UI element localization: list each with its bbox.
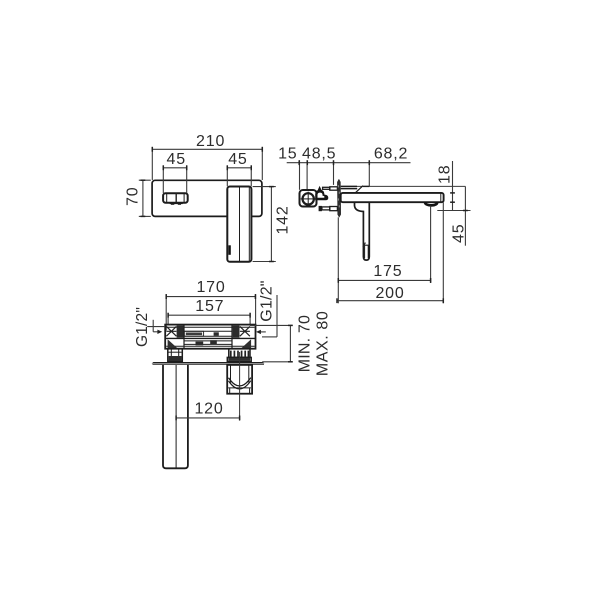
side spout aerator: [425, 202, 438, 205]
side trim sleeve lines: [341, 186, 466, 193]
dimension 142 extension lines: [253, 187, 276, 262]
front view handle outer: [163, 193, 188, 203]
dimension 70 text: [125, 187, 142, 206]
plan min max text: [297, 311, 332, 377]
svg-text:200: 200: [375, 285, 404, 302]
svg-text:45: 45: [228, 151, 247, 168]
svg-text:MIN. 70: MIN. 70: [297, 315, 314, 372]
side handle square: [300, 190, 317, 207]
side wall escutcheon strip: [337, 179, 340, 217]
dimension 70 extension lines: [139, 180, 151, 216]
plan min max dim line: [288, 325, 293, 361]
dimension 142 line: [269, 187, 274, 262]
dimension 15 text: [278, 145, 297, 162]
svg-text:45: 45: [450, 224, 467, 243]
svg-text:175: 175: [373, 263, 402, 280]
front view spout inner lines: [240, 187, 250, 261]
dimension 175 line: [338, 278, 430, 283]
dimension 210 line: [152, 147, 262, 152]
dimension 210 text: [196, 133, 225, 150]
dimension 18 text: [437, 165, 454, 184]
dimension 48,5 text: [302, 145, 336, 162]
plan dim 120 line: [176, 416, 240, 421]
front view spout aerator mark: [228, 245, 230, 255]
plan left port block: [168, 349, 183, 362]
plan body left cap: [166, 325, 184, 348]
plan dim 170 line: [166, 294, 255, 299]
dimension 142 text: [275, 205, 292, 234]
plan body FANTINI label: [184, 331, 219, 336]
svg-text:18: 18: [437, 165, 454, 184]
svg-text:120: 120: [194, 401, 223, 418]
plan min max extension line: [250, 325, 292, 361]
plan left drop pipe: [163, 365, 188, 468]
dimension 45 right extension lines: [227, 165, 251, 186]
side handle adapter bottom: [319, 206, 338, 211]
dimension 200 line: [337, 298, 443, 303]
side spout drop strip foot: [363, 243, 369, 259]
plan right outlet cylinder: [227, 365, 252, 394]
dimension 45 right text: [228, 151, 247, 168]
plan G half inch left text: [134, 307, 151, 347]
side spout bar: [341, 193, 444, 202]
svg-text:48,5: 48,5: [302, 145, 336, 162]
dimension 45 side construction: [437, 186, 470, 245]
svg-text:70: 70: [125, 187, 142, 206]
plan outlet centreline: [239, 352, 241, 421]
svg-text:210: 210: [196, 133, 225, 150]
dimension 45 left text: [166, 151, 185, 168]
svg-text:15: 15: [278, 145, 297, 162]
front view spout body: [227, 187, 251, 262]
dimension 68,2 text: [374, 145, 408, 162]
svg-text:MAX. 80: MAX. 80: [315, 311, 332, 377]
side spout bar end cap line: [440, 194, 442, 202]
plan dim 170 extension lines: [166, 294, 255, 331]
plan right port block: [227, 349, 251, 362]
plan G half inch right leader: [256, 295, 277, 337]
side dim chain line: [287, 160, 411, 165]
side handle lever: [315, 186, 328, 200]
dimension 210 extension lines: [152, 147, 262, 180]
side spout drop strip: [355, 202, 370, 260]
front view handle base: [170, 203, 183, 205]
svg-text:157: 157: [195, 298, 224, 315]
svg-text:45: 45: [166, 151, 185, 168]
plan dim 120 text: [194, 401, 223, 418]
side handle adapter top: [323, 187, 338, 190]
front view handle inner lines: [167, 193, 184, 203]
side handle knob cross: [301, 192, 316, 206]
plan dim 157 line: [168, 313, 250, 318]
dimension 45 side text: [450, 224, 467, 243]
plan dim 157 text: [195, 298, 224, 315]
front view wall plate: [152, 180, 262, 216]
plan body outer: [165, 325, 255, 349]
dimension 18 line: [450, 161, 455, 210]
dimension 70 line: [141, 180, 146, 216]
dimension 175 text: [373, 263, 402, 280]
plan G half inch right text: [259, 280, 276, 321]
side handle knob circle: [303, 193, 314, 204]
dimension 45 left extension lines: [163, 165, 186, 193]
side lower extension lines: [338, 202, 443, 303]
svg-text:G1/2": G1/2": [259, 280, 276, 321]
plan dim 157 extension lines: [168, 313, 250, 325]
plan G half inch left leader: [147, 320, 165, 334]
svg-text:170: 170: [196, 279, 225, 296]
plan body inner horizontals: [165, 327, 255, 346]
dimension 200 text: [375, 285, 404, 302]
svg-text:142: 142: [275, 205, 292, 234]
dimension 45 right line: [227, 165, 251, 170]
side dim chain extension lines: [300, 160, 370, 190]
plan wall plate bar: [152, 362, 265, 365]
plan body lower details: [196, 340, 217, 345]
svg-text:G1/2": G1/2": [134, 307, 151, 347]
plan dim 170 text: [196, 279, 225, 296]
dimension 45 left line: [163, 165, 186, 170]
plan body right cap: [232, 325, 251, 348]
svg-text:68,2: 68,2: [374, 145, 408, 162]
